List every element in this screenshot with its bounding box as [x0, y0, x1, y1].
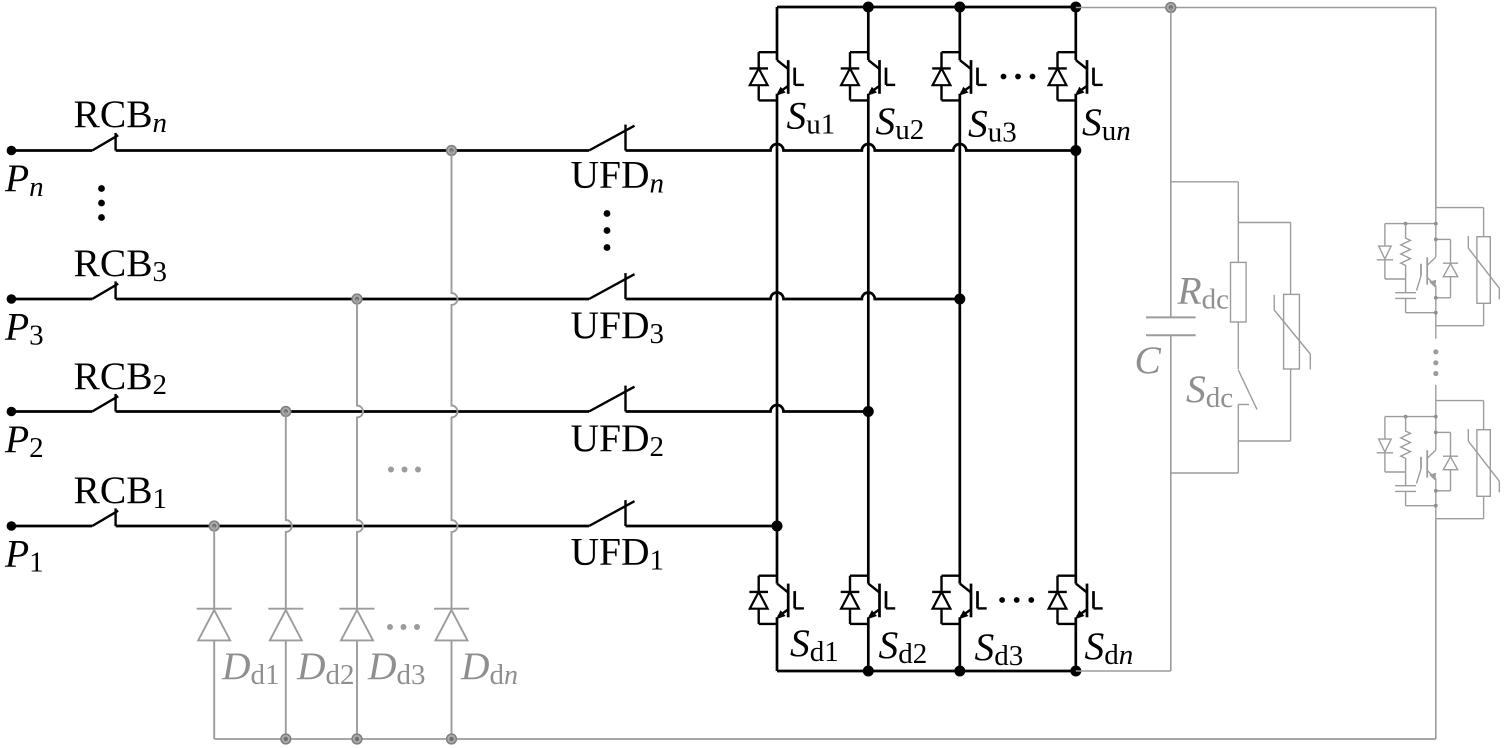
diode Ddn	[434, 609, 469, 641]
junction top bus	[1070, 2, 1081, 13]
wire branch 2 vertical middle	[867, 94, 870, 584]
disconnector UFDn	[589, 125, 635, 151]
wire submodule 2 MOV loop top	[1436, 401, 1484, 430]
label Sd2	[879, 623, 928, 670]
varistor of submodule 1	[1468, 236, 1499, 303]
label RCB3	[74, 241, 168, 288]
wire branch 3 vertical upper	[958, 7, 961, 60]
node P3 terminal	[7, 294, 17, 304]
diode of IGBT Su4	[1048, 52, 1076, 100]
junction submodule 2 main line	[1434, 489, 1438, 493]
wire submodule 1 snubber top	[1385, 223, 1436, 225]
label Sd3	[975, 625, 1024, 672]
label Su2	[876, 99, 925, 146]
wire UFD1 to branch (hops over other branches)	[626, 525, 778, 528]
wire varistor branch top	[1238, 223, 1290, 295]
wire Dd2 vertical lower	[285, 640, 287, 739]
transistor Su1	[776, 60, 804, 96]
junction submodule 2 main line	[1434, 431, 1438, 435]
junction Dd1 tap on P1 line	[209, 521, 219, 531]
wire submodule 1 snubber bottom	[1406, 298, 1436, 312]
snubber capacitor of submodule 2	[1395, 486, 1416, 492]
wire Ddn vertical lower	[451, 640, 453, 739]
wire Pn to RCBn	[11, 149, 92, 152]
wire Rdc to Sdc	[1237, 322, 1239, 369]
wire RCB2 to UFD2	[116, 410, 589, 413]
breaker RCB2	[92, 394, 118, 412]
wire submodule 2 snubber top	[1385, 416, 1436, 418]
diode Dd2	[268, 609, 303, 641]
wire submodule 1 MOV loop top	[1436, 208, 1484, 237]
wire submodule 1 main line upper	[1435, 208, 1437, 258]
breaker RCB1	[92, 508, 118, 526]
junction submodule 2 main line	[1434, 415, 1438, 419]
wire Dd1 vertical lower	[213, 640, 215, 739]
breaker RCBn	[92, 133, 118, 151]
transistor Sd4	[1075, 584, 1103, 620]
wire submodule 1 diode loop bottom	[1436, 277, 1451, 298]
diode of IGBT Su3	[932, 52, 960, 100]
capacitor C	[1146, 317, 1196, 335]
wire between submodules lower	[1435, 385, 1437, 401]
label UFD3	[571, 303, 665, 350]
label Rdc	[1177, 269, 1230, 316]
junction Dd2 on bottom rail	[281, 734, 291, 744]
junction Ddn tap on Pn line	[447, 146, 457, 156]
wire submodule 1 main line lower	[1435, 285, 1437, 325]
wire Dd3 vertical lower	[356, 640, 358, 739]
wire P1 to RCB1	[11, 525, 92, 528]
wire submodule 1 snubber diode bottom	[1385, 278, 1406, 280]
wire Sdc branch bottom	[1171, 405, 1239, 474]
junction P1-branch	[772, 521, 783, 532]
varistor (MOV) parallel to Rdc-Sdc	[1274, 294, 1310, 369]
label Sdn	[1085, 624, 1134, 671]
transistor Su3	[959, 60, 987, 96]
label UFD1	[571, 530, 665, 577]
label Sun	[1082, 100, 1131, 147]
wire capacitor branch upper	[1170, 8, 1172, 318]
junction Pn-branch	[1070, 145, 1081, 156]
antiparallel diode of submodule 1	[1443, 263, 1458, 277]
IGBT of submodule 2	[1417, 450, 1437, 483]
wire Dd1 vertical upper (hops over lower P lines)	[213, 526, 215, 609]
label Sd1	[790, 621, 839, 668]
ellipsis dots between UFDn and UFD3	[604, 210, 611, 251]
wire branch 1 vertical middle	[776, 94, 779, 584]
junction submodule 1 snubber top	[1404, 222, 1408, 226]
wire Dd3 vertical upper (hops over lower P lines)	[357, 299, 363, 609]
label UFDn	[571, 153, 665, 200]
node P1 terminal	[7, 521, 17, 531]
ellipsis dots between Pn and P3	[98, 185, 105, 221]
transistor Su2	[867, 60, 895, 96]
ellipsis dots between diodes Dd3 and Ddn	[387, 624, 420, 630]
junction submodule 2 snubber top	[1404, 415, 1408, 419]
diode of IGBT Sd4	[1048, 576, 1076, 624]
snubber diode of submodule 1	[1377, 224, 1393, 279]
node P2 terminal	[7, 407, 17, 417]
wire submodule 2 snubber diode bottom	[1385, 471, 1406, 473]
wire RCBn to UFDn	[116, 149, 589, 152]
diode of IGBT Sd3	[932, 576, 960, 624]
junction top bus	[954, 2, 965, 13]
wire submodule 2 diode loop top	[1436, 432, 1451, 456]
wire branch 2 vertical lower	[867, 617, 870, 671]
wire branch 1 vertical upper	[776, 7, 779, 60]
ellipsis dots between Dd3 and Ddn columns (upper)	[388, 467, 421, 473]
label RCB1	[74, 468, 168, 515]
wire submodule 2 MOV loop bottom	[1436, 496, 1484, 518]
junction P3-branch	[954, 294, 965, 305]
switch Sdc	[1238, 370, 1257, 409]
label UFD2	[571, 416, 665, 463]
IGBT of submodule 1	[1417, 257, 1437, 290]
junction Dd2 tap on P2 line	[281, 407, 291, 417]
wire submodule 2 main line lower	[1435, 478, 1437, 518]
wire branch 1 vertical lower	[776, 617, 779, 671]
wire UFD2 to branch (hops over other branches)	[626, 405, 869, 412]
transistor Sd1	[776, 584, 804, 620]
wire capacitor branch lower	[1170, 335, 1172, 671]
label C	[1135, 338, 1162, 382]
diode of IGBT Sd1	[749, 576, 777, 624]
transistor Su4	[1075, 60, 1103, 96]
breaker RCB3	[92, 281, 118, 299]
wire bottom bus (black)	[777, 670, 1076, 673]
wire Rdc branch top	[1171, 182, 1239, 263]
junction Ddn on bottom rail	[447, 734, 457, 744]
wire Dd2 vertical upper (hops over lower P lines)	[286, 412, 292, 609]
label RCBn	[74, 92, 168, 139]
label Dd1	[221, 644, 280, 691]
wire UFDn to branch (hops over other branches)	[626, 144, 1076, 151]
node Pn terminal	[7, 146, 17, 156]
label P2	[4, 417, 44, 464]
wire top bus gray extension	[1076, 7, 1436, 9]
snubber diode of submodule 2	[1377, 417, 1393, 472]
junction bottom bus	[1070, 666, 1081, 677]
wire UFD3 to branch (hops over other branches)	[626, 293, 960, 300]
resistor Rdc	[1231, 262, 1247, 322]
varistor of submodule 2	[1468, 429, 1499, 496]
label P1	[4, 532, 44, 579]
ellipsis dots between submodules	[1433, 349, 1438, 376]
wire top bus (black)	[777, 6, 1076, 9]
junction Dd3 on bottom rail	[352, 734, 362, 744]
wire branch 4 vertical lower	[1074, 617, 1077, 671]
wire submodule 1 diode loop top	[1436, 239, 1451, 263]
label RCB2	[74, 354, 168, 401]
snubber capacitor of submodule 1	[1395, 293, 1416, 299]
wire main-breaker string bottom	[1435, 519, 1437, 739]
wire bottom bus gray extension	[1076, 670, 1171, 672]
wire RCB3 to UFD3	[116, 298, 589, 301]
label Pn	[4, 156, 44, 203]
junction Dd3 tap on P3 line	[352, 294, 362, 304]
wire varistor branch bottom	[1238, 369, 1290, 441]
junction capacitor branch on top bus	[1166, 3, 1176, 13]
label Sdc	[1186, 367, 1233, 414]
disconnector UFD3	[589, 273, 635, 299]
diode of IGBT Su1	[749, 52, 777, 100]
label Ddn	[460, 644, 518, 691]
wire RCB1 to UFD1	[116, 525, 589, 528]
label Dd2	[296, 644, 355, 691]
junction bottom bus	[863, 666, 874, 677]
diode of IGBT Su2	[841, 52, 869, 100]
junction bottom bus	[954, 666, 965, 677]
wire P2 to RCB2	[11, 410, 92, 413]
label Su3	[968, 102, 1017, 149]
wire branch 4 vertical middle	[1074, 94, 1077, 584]
wire Ddn vertical upper (hops over lower P lines)	[452, 151, 458, 609]
wire main-breaker string top	[1435, 8, 1437, 208]
junction submodule 2 main line	[1434, 504, 1438, 508]
junction submodule 1 main line	[1434, 311, 1438, 315]
label P3	[4, 305, 44, 352]
transistor Sd3	[959, 584, 987, 620]
snubber resistor of submodule 1	[1401, 224, 1411, 293]
wire branch 3 vertical middle	[958, 94, 961, 584]
junction top bus	[863, 2, 874, 13]
transistor Sd2	[867, 584, 895, 620]
junction submodule 1 main line	[1434, 238, 1438, 242]
wire submodule 2 snubber bottom	[1406, 491, 1436, 505]
snubber resistor of submodule 2	[1401, 417, 1411, 486]
wire between submodules upper	[1435, 326, 1437, 339]
disconnector UFD1	[589, 500, 635, 526]
wire submodule 2 diode loop bottom	[1436, 470, 1451, 491]
wire branch 2 vertical upper	[867, 7, 870, 60]
wire branch 4 vertical upper	[1074, 7, 1077, 60]
wire P3 to RCB3	[11, 298, 92, 301]
disconnector UFD2	[589, 386, 635, 412]
ellipsis dots between Sd3 and Sdn	[999, 597, 1034, 603]
junction submodule 1 main line	[1434, 296, 1438, 300]
junction P2-branch	[863, 406, 874, 417]
diode of IGBT Sd2	[841, 576, 869, 624]
ellipsis dots between Su3 and Sun	[1001, 74, 1036, 80]
antiparallel diode of submodule 2	[1443, 456, 1458, 470]
svg-text:C: C	[1135, 338, 1162, 382]
label Dd3	[367, 644, 426, 691]
junction submodule 1 main line	[1434, 222, 1438, 226]
diode Dd1	[197, 609, 232, 641]
wire branch 3 vertical lower	[958, 617, 961, 671]
label Su1	[787, 94, 836, 141]
wire submodule 1 MOV loop bottom	[1436, 303, 1484, 325]
wire submodule 2 main line upper	[1435, 401, 1437, 451]
wire bottom rail (gray)	[214, 738, 1436, 740]
diode Dd3	[340, 609, 375, 641]
